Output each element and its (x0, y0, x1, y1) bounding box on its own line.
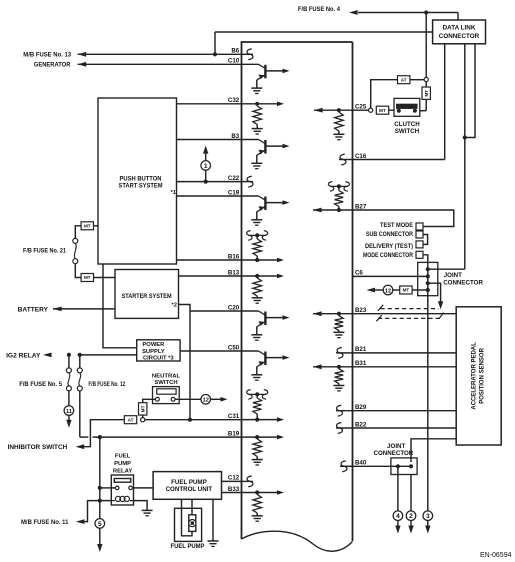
label STARTER SYSTEM (122, 293, 177, 308)
label DELIVERY (TEST) MODE CONNECTOR (363, 243, 413, 259)
pin label C31 (228, 413, 240, 420)
circled ref 1 (201, 161, 211, 171)
wire C50 feed (180, 350, 241, 352)
wire B16 internal with arrow (242, 258, 285, 263)
svg-text:C22: C22 (228, 175, 240, 182)
svg-text:AT: AT (128, 417, 134, 422)
svg-text:MT: MT (424, 90, 429, 97)
node branch circle C25 (369, 108, 373, 112)
svg-text:B31: B31 (355, 360, 367, 367)
accelerator pedal position sensor box (456, 307, 501, 445)
wire C31 internal with arrow (242, 417, 285, 422)
svg-text:C32: C32 (228, 97, 240, 104)
wire fuse21 top link (94, 225, 99, 227)
arrow down to shield (438, 301, 443, 309)
svg-text:B13: B13 (228, 269, 240, 276)
wire C31 feed (145, 418, 242, 422)
wire joint2 pin2 down (410, 475, 412, 512)
wire C32 internal with arrow (242, 102, 285, 107)
svg-text:CIRCUIT *3: CIRCUIT *3 (143, 356, 174, 362)
label CLUTCH SWITCH (394, 121, 420, 135)
resistor R3 (B13) (253, 278, 262, 298)
label F/B FUSE No. 21 (23, 247, 66, 254)
svg-text:F/B FUSE No. 4: F/B FUSE No. 4 (298, 6, 340, 13)
wire B19 feed (100, 436, 242, 438)
circled ref 5 (95, 519, 105, 529)
arrow to M/B FUSE No.13 (78, 52, 87, 57)
connector MT box lower (F/B21) (81, 274, 93, 282)
svg-text:C25: C25 (355, 104, 367, 111)
node circled 1 riser (205, 153, 207, 182)
wire riser upper (425, 13, 427, 88)
svg-text:C20: C20 (228, 304, 240, 311)
svg-text:MT: MT (84, 224, 91, 229)
label M/B FUSE No. 13 (23, 51, 71, 58)
pin label C25 (355, 104, 367, 111)
wire fuse5 chain (68, 355, 70, 406)
wire C12 stub with break (242, 476, 254, 487)
wire joint1 to DLC (428, 268, 465, 270)
arrow to IG2 RELAY (43, 353, 52, 358)
svg-text:CONNECTOR: CONNECTOR (374, 450, 414, 457)
arrow to M/B FUSE No. 11 (76, 519, 85, 524)
wire FPCU ground pin (212, 499, 214, 541)
wire DLC pin3 (465, 44, 475, 138)
wire B13 feed (179, 275, 242, 277)
joint connector 1 bus (426, 262, 430, 511)
wire C16 stub with break (339, 154, 353, 165)
pin label C16 (355, 153, 367, 160)
svg-text:C31: C31 (228, 413, 240, 420)
wire M/B FUSE No.13 (B6) (78, 53, 242, 55)
wire B19 internal with arrow (242, 435, 285, 440)
arrow down ref 11 (66, 415, 71, 428)
arrow up ref 1 (203, 146, 208, 154)
pin label B40 (355, 460, 367, 467)
connector MT box (riser) (422, 87, 430, 99)
label FUEL PUMP (171, 543, 206, 550)
pin label B16 (228, 253, 240, 260)
wire B21 to sensor (353, 352, 457, 354)
label EN-06594 (480, 552, 512, 559)
pin label B13 (228, 269, 240, 276)
pin label B21 (355, 346, 367, 353)
svg-text:*2: *2 (172, 303, 177, 309)
svg-text:C19: C19 (228, 189, 240, 196)
wire B22 to sensor (353, 427, 457, 429)
wire joint1 to shield (428, 283, 441, 302)
svg-text:12: 12 (385, 288, 391, 294)
fuel pump relay box (111, 475, 133, 505)
circled ref 4 (393, 511, 403, 521)
label FUEL PUMP RELAY (113, 454, 132, 475)
clutch switch box (394, 98, 420, 116)
ground for R1 (252, 129, 263, 134)
svg-text:1: 1 (204, 163, 208, 170)
resistor R5 (B19) (253, 439, 262, 460)
wire B40 feed (353, 465, 412, 467)
resistor R4 (to C31) (253, 396, 262, 419)
transistor Q5 (C50 input) (242, 351, 290, 380)
wire relay contact left (98, 486, 116, 490)
wire test-delivery link (423, 235, 427, 245)
connector pair fuse5 (66, 368, 71, 391)
clutch switch contacts (397, 104, 418, 113)
svg-text:EN-06594: EN-06594 (480, 552, 512, 559)
arrow to INHIBITOR SWITCH (76, 444, 85, 449)
ECU main box outline (242, 42, 353, 551)
svg-text:CONNECTOR: CONNECTOR (443, 279, 483, 286)
svg-text:B40: B40 (355, 460, 367, 467)
resistor R2 (to B16) (253, 237, 262, 260)
circled ref 2 (406, 511, 416, 521)
svg-text:PUMP: PUMP (114, 461, 131, 467)
svg-text:F/B FUSE No. 5: F/B FUSE No. 5 (19, 381, 62, 388)
svg-text:POSITION SENSOR: POSITION SENSOR (479, 347, 485, 403)
wire C20 feed (190, 310, 242, 312)
ground (FPCU) (208, 541, 219, 546)
svg-text:B29: B29 (355, 404, 367, 411)
svg-text:FUEL PUMP: FUEL PUMP (171, 479, 207, 486)
label POWER SUPPLY CIRCUIT (142, 342, 174, 362)
wire C22 feed (177, 180, 242, 184)
starter system box (115, 270, 179, 319)
svg-text:B27: B27 (355, 203, 367, 210)
shield end marks (376, 305, 443, 322)
ground for R6 (252, 516, 263, 521)
wire C25 to branch circle (353, 109, 369, 111)
wire B13 internal with arrow (242, 274, 285, 279)
svg-text:MT: MT (84, 275, 91, 280)
pin label C32 (228, 97, 240, 104)
svg-text:MT: MT (403, 288, 410, 293)
shield dashed bottom (378, 317, 442, 319)
svg-text:11: 11 (66, 409, 72, 415)
wire DLC pin2 (463, 44, 467, 269)
circled ref 12 (joint) (383, 285, 393, 295)
label PUSH BUTTON START SYSTEM (119, 175, 177, 196)
wire B31 to sensor (353, 366, 457, 368)
resistor R8 (B27) (335, 188, 344, 210)
label JOINT CONNECTOR 1 (443, 272, 483, 286)
svg-text:C50: C50 (228, 344, 240, 351)
ground for R9 (333, 332, 344, 337)
wire delivery to joint conn (423, 255, 428, 263)
arrow left ref 12 (366, 288, 375, 293)
svg-text:INHIBITOR SWITCH: INHIBITOR SWITCH (8, 444, 68, 451)
node twisted-pair tap C (328, 182, 349, 192)
svg-text:FUEL PUMP: FUEL PUMP (171, 543, 206, 550)
svg-text:CONTROL UNIT: CONTROL UNIT (166, 486, 213, 493)
pin label B22 (355, 421, 367, 428)
wire B29 stub with break (336, 405, 353, 416)
svg-text:MT: MT (141, 405, 146, 412)
transistor Q2 (B3 input) (242, 140, 290, 169)
svg-text:B16: B16 (228, 253, 240, 260)
pin label C50 (228, 344, 240, 351)
svg-text:2: 2 (409, 513, 413, 520)
transistor Q3 (C19 input) (242, 196, 290, 225)
resistor R9 (B23) (335, 316, 344, 333)
wire C16 to DLC pin1 (353, 44, 445, 160)
wire joint2 pin1 down (397, 466, 399, 511)
svg-text:ACCELERATOR PEDAL: ACCELERATOR PEDAL (471, 342, 477, 410)
wire B3 feed (177, 139, 242, 141)
connector pair fuse21 (73, 238, 78, 263)
svg-text:RELAY: RELAY (113, 468, 132, 474)
label FUEL PUMP CONTROL UNIT (166, 479, 213, 493)
wire fuse21 left chain (75, 226, 81, 278)
label GENERATOR (34, 61, 71, 68)
pin label B19 (228, 430, 240, 437)
ground for R3 (252, 298, 263, 303)
svg-text:STARTER SYSTEM: STARTER SYSTEM (122, 293, 172, 300)
svg-text:TEST MODE: TEST MODE (380, 222, 413, 229)
circled ref 11 (64, 406, 74, 416)
wire B29 to sensor (353, 410, 457, 412)
svg-text:B23: B23 (355, 307, 367, 314)
svg-text:SUB CONNECTOR: SUB CONNECTOR (366, 231, 413, 238)
svg-text:SUPPLY: SUPPLY (142, 349, 165, 355)
wire B31 internal with arrow (313, 364, 353, 369)
svg-text:C6: C6 (355, 270, 363, 277)
pin label B31 (355, 360, 367, 367)
neutral switch box (153, 387, 180, 404)
node junction circle (AT/MT) (141, 418, 145, 422)
wire IG2 relay (67, 353, 137, 357)
label NEUTRAL SWITCH (152, 374, 181, 387)
svg-text:AT: AT (401, 77, 407, 82)
pin label C20 (228, 304, 240, 311)
fuel pump motor M1 (189, 515, 196, 532)
wire MT to clutch switch (389, 109, 394, 111)
svg-text:SWITCH: SWITCH (154, 380, 177, 386)
svg-text:4: 4 (396, 513, 400, 520)
wire C12 feed (222, 480, 242, 482)
node twisted-pair tap A (247, 231, 268, 241)
wire clutch to riser (420, 99, 426, 111)
wire branch to ref 5 (99, 501, 101, 519)
arrow to BATTERY (53, 307, 62, 312)
connector MT box upper (F/B21) (81, 222, 93, 230)
wire neutral sw to ref12 (175, 398, 201, 400)
ground for R5 (252, 460, 263, 465)
svg-text:NEUTRAL: NEUTRAL (152, 374, 181, 380)
svg-text:*1: *1 (171, 190, 177, 196)
test mode sub connector pins (416, 223, 423, 238)
wire B22 stub with break (336, 423, 353, 434)
label TEST MODE SUB CONNECTOR (366, 222, 413, 238)
wire coil right to ground (134, 501, 148, 511)
label F/B FUSE No. 5 (19, 381, 62, 388)
svg-text:CONNECTOR: CONNECTOR (439, 33, 480, 40)
label ACCELERATOR PEDAL POSITION SENSOR (471, 342, 485, 410)
svg-text:M/B FUSE No. 11: M/B FUSE No. 11 (21, 519, 69, 526)
wire C6 feed (353, 275, 428, 277)
svg-text:GENERATOR: GENERATOR (34, 61, 71, 68)
svg-text:MT: MT (379, 108, 386, 113)
svg-text:12: 12 (203, 398, 209, 404)
wire neutral sw left to MT (143, 399, 156, 402)
svg-text:PUSH BUTTON: PUSH BUTTON (120, 175, 162, 182)
neutral switch contacts (156, 397, 176, 401)
wire B27 internal with arrow (313, 208, 353, 213)
wire B19 branch down (99, 437, 101, 501)
svg-text:B19: B19 (228, 430, 240, 437)
svg-text:C12: C12 (228, 475, 240, 482)
wire B33 internal with arrow (242, 490, 285, 495)
svg-text:5: 5 (98, 521, 102, 528)
node branch circle AT line (424, 77, 428, 81)
connector MT box (neutral sw) (139, 403, 147, 415)
svg-text:B21: B21 (355, 346, 367, 353)
wire B6 stub with break (242, 49, 254, 60)
circled ref 3 (423, 511, 433, 521)
shield dashed top (381, 308, 439, 310)
node twisted-pair tap B (247, 390, 268, 400)
wire starter to C20 riser (179, 305, 191, 420)
node junction on fuse4 line (424, 10, 428, 14)
label F/B FUSE No. 4 (298, 6, 340, 13)
wire FPCU to pump pin1 (191, 499, 193, 515)
arrow to F/B FUSE No.4 (349, 10, 358, 15)
arrow right ref 12 (210, 397, 227, 402)
pin label C19 (228, 189, 240, 196)
wire sensor to joint2 (411, 439, 456, 462)
transistor Q4 (C20 input) (242, 311, 290, 340)
wire coil left to M/B fuse 11 (84, 499, 111, 522)
wire DLC left feed (213, 32, 433, 56)
svg-text:F/B FUSE No. 21: F/B FUSE No. 21 (23, 247, 66, 254)
wire B23 internal with arrow (313, 311, 353, 316)
pin label C12 (228, 475, 240, 482)
arrow down ref 4 (395, 520, 400, 533)
wire B16 feed (177, 259, 242, 261)
wire pushbutton to power supply (103, 264, 137, 348)
svg-text:C10: C10 (228, 58, 240, 65)
connector AT box (clutch) (398, 76, 410, 84)
circled ref 12 (neutral) (201, 395, 211, 405)
wire FPCU to pump pin2 (182, 499, 193, 536)
resistor R6 (B33) (253, 495, 262, 516)
svg-text:MODE CONNECTOR: MODE CONNECTOR (363, 252, 413, 259)
svg-text:JOINT: JOINT (444, 272, 462, 279)
wire MT to junction circle (142, 415, 144, 418)
ground for R10 (333, 386, 344, 391)
svg-text:B3: B3 (231, 133, 239, 140)
arrow to GENERATOR (78, 62, 87, 67)
data link connector U10 (433, 20, 486, 44)
svg-text:C16: C16 (355, 153, 367, 160)
fuel pump control unit box (153, 472, 221, 500)
joint connector 2 box (391, 458, 417, 475)
pin label B29 (355, 404, 367, 411)
transistor Q1 (C10 input) (242, 64, 290, 93)
label M/B FUSE No. 11 (21, 519, 69, 526)
svg-text:DELIVERY (TEST): DELIVERY (TEST) (365, 243, 413, 250)
svg-text:B22: B22 (355, 421, 367, 428)
wire B23 to sensor (353, 313, 457, 315)
connector pair fuse12 (77, 368, 82, 391)
wire C25 internal with arrow (314, 108, 353, 113)
wire fuse21 to starter (94, 277, 116, 279)
label JOINT CONNECTOR 2 (374, 443, 414, 457)
fuel pump box (175, 508, 202, 541)
pin label B23 (355, 307, 367, 314)
wire GENERATOR (C10) (78, 63, 242, 65)
relay contact terminals (115, 486, 132, 490)
svg-text:BATTERY: BATTERY (18, 306, 49, 313)
svg-text:START SYSTEM: START SYSTEM (119, 183, 163, 190)
resistor R10 (B31) (335, 369, 344, 386)
ground (relay coil) (142, 510, 153, 515)
svg-text:M/B FUSE No. 13: M/B FUSE No. 13 (23, 51, 71, 58)
wire joint1 to MT ref12 (412, 289, 428, 291)
neutral switch contact bar (157, 389, 176, 394)
wire B27 to test connector (353, 210, 454, 227)
wire B21 stub with break (336, 348, 353, 359)
pin label B27 (355, 203, 367, 210)
relay coil (111, 496, 133, 501)
wire B33 feed (222, 492, 242, 494)
connector MT box (clutch) (376, 106, 388, 114)
svg-text:B33: B33 (228, 486, 240, 493)
wire F/B FUSE No.4 feed (358, 13, 458, 21)
pin label B33 (228, 486, 240, 493)
ground for R7 (333, 134, 344, 139)
arrow down ref 5 (97, 528, 102, 552)
pin label C22 (228, 175, 240, 182)
svg-text:B6: B6 (231, 48, 239, 55)
svg-text:3: 3 (426, 513, 430, 520)
wire AT branch (371, 80, 397, 108)
label INHIBITOR SWITCH (8, 444, 68, 451)
delivery mode connector pins (416, 241, 423, 258)
svg-text:F/B FUSE No. 12: F/B FUSE No. 12 (88, 381, 125, 388)
pin label B6 (231, 48, 239, 55)
wire AT to circle (410, 79, 424, 81)
wire battery (to starter) (53, 308, 115, 310)
svg-text:POWER: POWER (142, 342, 165, 348)
wire fuse12 chain (79, 355, 81, 437)
pin label B3 (231, 133, 239, 140)
pin label C6 (355, 270, 363, 277)
label IG2 RELAY (6, 352, 41, 359)
power supply circuit box (137, 340, 180, 361)
connector MT box (ref12) (400, 286, 412, 294)
label BATTERY (18, 306, 49, 313)
svg-text:DATA LINK: DATA LINK (443, 25, 476, 32)
label F/B FUSE No. 12 (88, 381, 125, 388)
resistor R7 (C25) (335, 112, 344, 134)
wire ref12 segment (375, 289, 400, 291)
relay contact bar (114, 479, 131, 483)
svg-text:SWITCH: SWITCH (395, 128, 420, 135)
wire relay to control unit (134, 487, 154, 489)
connector AT box (inhibitor) (124, 416, 136, 424)
wire B40 stub with break (340, 461, 353, 472)
push button start system box (98, 98, 177, 264)
joint connector 1 box (418, 262, 438, 295)
wire C19 feed (177, 195, 242, 197)
wire C32 feed (177, 103, 242, 105)
wire C22 stub with break (242, 176, 254, 187)
joint connector 2 nodes (396, 464, 413, 468)
svg-text:IG2 RELAY: IG2 RELAY (6, 352, 41, 359)
arrow down ref 2 (408, 520, 413, 533)
pin label C10 (228, 58, 240, 65)
svg-text:FUEL: FUEL (115, 454, 131, 460)
